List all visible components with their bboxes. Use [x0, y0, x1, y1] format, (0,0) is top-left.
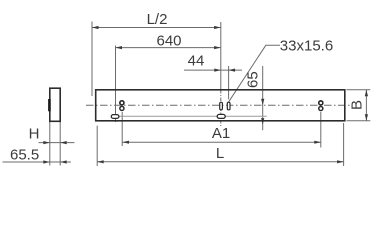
svg-text:640: 640 — [156, 33, 181, 50]
svg-text:B: B — [349, 100, 366, 110]
svg-text:L: L — [216, 145, 224, 162]
svg-text:65.5: 65.5 — [10, 146, 39, 163]
svg-text:L/2: L/2 — [147, 11, 168, 28]
svg-text:44: 44 — [188, 53, 205, 70]
svg-text:65: 65 — [245, 71, 262, 88]
svg-text:33x15.6: 33x15.6 — [280, 38, 333, 55]
svg-text:H: H — [29, 125, 40, 142]
svg-text:A1: A1 — [212, 125, 230, 142]
